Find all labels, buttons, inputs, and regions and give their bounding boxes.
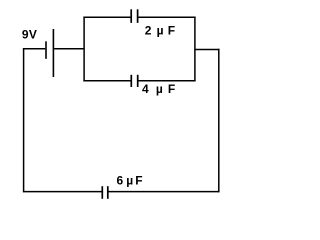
- capacitor C2 4uF left plate: [130, 75, 132, 87]
- capacitor C1 2uF left plate: [130, 9, 132, 23]
- label: 4 uF value of C2: [142, 82, 175, 96]
- svg-text:µ: µ: [157, 23, 164, 37]
- wire: parallel block bottom edge, right segment: [139, 80, 196, 82]
- svg-text:2: 2: [145, 23, 152, 37]
- svg-text:9: 9: [22, 28, 29, 42]
- capacitor C3 6uF right plate: [107, 186, 109, 199]
- svg-text:V: V: [29, 28, 37, 42]
- wire: parallel block top edge, left segment: [83, 16, 130, 18]
- svg-text:F: F: [135, 174, 142, 188]
- svg-text:F: F: [168, 23, 175, 37]
- wire: parallel block top edge, right segment: [138, 16, 195, 18]
- capacitor C1 2uF right plate: [137, 9, 139, 23]
- wire: outer right vertical: [218, 49, 220, 193]
- svg-text:4: 4: [142, 82, 149, 96]
- battery V1 long plate (positive): [52, 29, 54, 77]
- wire: left feed from node to battery negative: [23, 48, 45, 50]
- wire: parallel block right edge: [194, 17, 196, 82]
- wire: battery positive to parallel block left edge: [54, 48, 84, 50]
- label: 2 uF value of C1: [145, 23, 175, 37]
- capacitor C2 4uF right plate: [137, 75, 139, 87]
- svg-text:µ: µ: [156, 82, 163, 96]
- wire: bottom edge, left segment to C3: [23, 191, 102, 193]
- svg-text:µ: µ: [126, 174, 133, 188]
- svg-text:6: 6: [117, 174, 124, 188]
- capacitor C3 6uF left plate: [101, 186, 103, 199]
- label: 6 uF value of C3: [117, 174, 143, 188]
- wire: parallel block left edge: [83, 17, 85, 82]
- wire: parallel block bottom edge, left segment: [83, 80, 130, 82]
- wire: parallel block right edge to outer right wire: [195, 49, 220, 51]
- wire: bottom edge, right segment from C3: [109, 191, 220, 193]
- battery V1 short plate (negative): [45, 41, 47, 59]
- wire: outer left vertical: [23, 48, 25, 192]
- label: 9 V: [22, 28, 37, 42]
- svg-text:F: F: [168, 82, 175, 96]
